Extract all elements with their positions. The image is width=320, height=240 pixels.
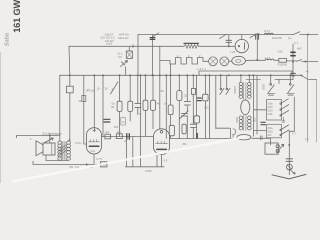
svg-text:2003: 2003 xyxy=(267,107,273,109)
svg-text:2003: 2003 xyxy=(267,131,273,133)
wire V257 switch column xyxy=(256,75,258,134)
wire V196.5 xyxy=(196,75,198,133)
text labels group xyxy=(30,29,310,173)
box B1 contact 1 xyxy=(280,103,282,105)
svg-text:Cax: Cax xyxy=(90,149,95,153)
resistor R6 xyxy=(151,100,156,110)
svg-text:410b: 410b xyxy=(267,114,273,116)
svg-text:706: 706 xyxy=(69,166,74,169)
tube V1 bottom wire xyxy=(93,154,95,165)
svg-text:100a: 100a xyxy=(267,104,273,106)
resistor R3 xyxy=(117,101,122,111)
wire V137.8 with capacitor xyxy=(137,75,139,114)
svg-text:100: 100 xyxy=(204,106,209,110)
svg-text:(1): (1) xyxy=(288,36,291,40)
wire pot to bus xyxy=(125,67,127,76)
main bus H3 xyxy=(60,74,302,76)
node dot on H1 right xyxy=(307,33,309,35)
mains lead V289.3 xyxy=(288,131,290,175)
heater chain square wave xyxy=(170,58,209,65)
svg-text:0,3 3: 0,3 3 xyxy=(264,29,270,33)
switch S1 blade on H1 xyxy=(294,32,300,35)
T2 upper primary coil xyxy=(239,82,243,98)
contact A1 circle xyxy=(270,83,272,85)
wire V209.5 xyxy=(209,75,211,138)
membrane arrow xyxy=(44,138,53,143)
svg-text:30: 30 xyxy=(105,87,108,91)
resistor R15 xyxy=(203,94,209,101)
switch arrow below plug xyxy=(290,170,295,174)
resistor R2 box on H4 xyxy=(279,58,287,62)
box B1 contact 2 xyxy=(280,109,282,111)
capacitor C6 box on V69.8 xyxy=(66,86,73,93)
T2 lower secondary coil xyxy=(248,116,252,130)
resistor R4 xyxy=(128,101,133,111)
svg-text:F 7: F 7 xyxy=(305,138,309,142)
wire V at x293 AVC line xyxy=(292,44,294,80)
svg-text:1003: 1003 xyxy=(267,111,273,113)
tube U1 cathode bar xyxy=(244,43,246,50)
node dot H1 coil junction xyxy=(258,34,260,36)
T2 bottom flat oval xyxy=(237,135,251,140)
svg-text:Saba: Saba xyxy=(5,33,11,46)
capacitor C16 tiny on V83.8 xyxy=(82,96,86,102)
svg-text:3,0 Membran: 3,0 Membran xyxy=(42,132,62,136)
T2 mid oval winding xyxy=(241,100,250,115)
capacitor C18 dark blob xyxy=(197,98,201,101)
feedthrough blob on H5 xyxy=(196,134,198,139)
switch blade S3 below bus xyxy=(111,82,119,94)
box B2 contact 1 xyxy=(280,129,282,131)
lamp contacts in P1 xyxy=(276,145,279,148)
svg-text:#1/2/3/8: #1/2/3/8 xyxy=(272,36,282,40)
connector ticks on jog wire xyxy=(260,136,262,140)
resistor R5 xyxy=(143,100,148,110)
wire V right column x307.5 xyxy=(307,34,309,142)
switch S2 blade on H4 xyxy=(297,60,302,62)
tube V2 top electrode xyxy=(160,131,163,134)
resistor R10 xyxy=(194,116,200,123)
wire H at y79.5 xyxy=(275,79,293,81)
heater chain feed xyxy=(160,59,170,61)
wire lamp2 to rectifier oval xyxy=(229,60,232,62)
dial lamp La2 xyxy=(220,57,229,66)
main bottom wire A xyxy=(33,161,108,164)
tube V2 bottom wires xyxy=(157,155,162,167)
node dot on H4 right xyxy=(304,61,306,63)
resistor R13 box DG on bottom wire xyxy=(101,162,107,167)
contact A1 blade xyxy=(268,85,274,93)
wire row6 from column xyxy=(253,130,266,132)
capacitor C15 on mains lead xyxy=(286,159,293,162)
switch contact K2 xyxy=(226,88,228,90)
trimmer C2 on H1 xyxy=(256,34,259,39)
wire V at x159.8 to tube2 xyxy=(159,46,161,129)
node dot oval left xyxy=(256,59,258,61)
svg-text:#6x: #6x xyxy=(183,142,188,146)
arrow on P1 xyxy=(277,144,284,152)
wire H5 mid horizontal xyxy=(170,138,238,140)
wire V253.4 switch column xyxy=(252,75,254,136)
transformer T1 core xyxy=(63,142,65,160)
contact A2 foot bars xyxy=(287,94,294,95)
svg-text:p~: p~ xyxy=(97,87,102,91)
wire V at x138 xyxy=(137,35,139,76)
node dots on main bus xyxy=(69,74,71,76)
junction dots group xyxy=(49,33,309,165)
wire V69.8 xyxy=(68,46,71,141)
svg-text:200a: 200a xyxy=(267,128,273,130)
wire yB lower left xyxy=(46,160,69,162)
tube U1 triode circle AK1 xyxy=(235,39,248,52)
tube U1 anode dot xyxy=(238,45,240,47)
svg-text:VCL1: VCL1 xyxy=(75,141,82,145)
boxed label 1,2 xyxy=(121,118,126,126)
svg-text:MΩ1-ΩJ: MΩ1-ΩJ xyxy=(118,36,129,40)
svg-text:0μ1: 0μ1 xyxy=(105,131,110,134)
capacitor C3 on V228.8 xyxy=(226,40,232,42)
tube V2 grid xyxy=(156,141,168,143)
svg-text:0 3 3: 0 3 3 xyxy=(265,58,271,60)
svg-text:2003: 2003 xyxy=(262,84,266,90)
tick above H2 xyxy=(132,45,134,48)
svg-text:120: 120 xyxy=(114,125,119,129)
wire stub V279 xyxy=(278,80,280,84)
svg-text:0,5: 0,5 xyxy=(118,55,122,59)
contact A1 foot bars xyxy=(267,94,274,95)
wire V132.8 xyxy=(132,137,134,167)
resistor R1 zigzag xyxy=(184,44,199,48)
wire V59.8 bus left end down xyxy=(59,75,61,141)
wire V166.3 xyxy=(165,75,167,138)
switch contact K1 xyxy=(220,88,222,90)
node dot bottom wire xyxy=(86,164,88,166)
capacitor C8 xyxy=(184,102,190,105)
tube V1 cathode xyxy=(89,145,99,147)
svg-text:R13000: R13000 xyxy=(278,62,288,66)
T2 core xyxy=(244,83,246,131)
wire A2 feed xyxy=(289,75,291,83)
svg-text:3Ω: 3Ω xyxy=(79,99,83,103)
svg-text:+1 9 1 3: +1 9 1 3 xyxy=(196,67,206,71)
box B1 contact 3 xyxy=(280,115,282,117)
T2 upper secondary coil xyxy=(248,82,252,98)
wire V170.6 chain feed xyxy=(170,64,172,139)
svg-text:12k: 12k xyxy=(184,94,189,98)
svg-text:L: L xyxy=(112,87,114,92)
lamp box P1 xyxy=(265,143,278,154)
speaker SP1 magnet box xyxy=(43,143,55,155)
wire loop V215.8 xyxy=(215,75,217,128)
capacitor C7 xyxy=(135,104,141,108)
wire magnet leg xyxy=(45,155,47,161)
node dot membrane line xyxy=(49,135,51,137)
capacitor C17 dark blob xyxy=(104,119,110,122)
switch box B2 xyxy=(267,124,282,138)
resistor R8 xyxy=(177,91,182,101)
switch box B1 xyxy=(267,100,282,121)
box B2 contact 2 xyxy=(280,134,282,136)
trimmer capacitor X on V187.3 xyxy=(181,113,187,116)
wire V220.7 contact stub xyxy=(220,75,222,88)
T2 lower primary coil xyxy=(239,116,243,130)
tube V1 grid xyxy=(88,140,99,142)
potentiometer arrow xyxy=(121,61,128,67)
capacitor C14 dark blob xyxy=(261,122,265,124)
tube V2 envelope xyxy=(153,129,169,155)
wire V38.9 to speaker xyxy=(49,136,51,144)
wire V94.3 tube1 anode feed xyxy=(93,75,95,127)
contact A2 circle xyxy=(289,83,291,85)
resistor R14 top box xyxy=(191,89,195,95)
wire V119.5 with resistor xyxy=(119,75,121,136)
node dot mains lead xyxy=(288,144,290,146)
trimmer arrow C3 xyxy=(220,34,227,38)
ground mark below B1 xyxy=(282,118,285,123)
svg-text:V 7: V 7 xyxy=(292,131,297,135)
resistor R12 on W12 xyxy=(116,134,122,139)
wire T1 secondary jog xyxy=(69,139,70,141)
wire U1 top feed xyxy=(241,35,243,40)
inductor L2 bumps on H4 xyxy=(265,59,274,60)
wire W12 tube1-tube2 coupling xyxy=(102,136,154,138)
contact A2 blade xyxy=(288,85,294,93)
wire H1 right segment xyxy=(300,33,318,35)
tube V1 envelope xyxy=(87,128,102,154)
wire V at x152.4 with capacitor xyxy=(151,35,153,76)
svg-text:2002: 2002 xyxy=(235,117,239,123)
wire V294.3 right xyxy=(289,97,294,131)
electrolytic C5 on V293 xyxy=(291,73,296,75)
wire line B below tube2 xyxy=(125,166,164,168)
svg-text:#10: #10 xyxy=(297,46,302,50)
svg-text:X 1: X 1 xyxy=(294,41,299,45)
wire row3 from column xyxy=(253,109,266,111)
svg-text:8a: 8a xyxy=(161,89,164,93)
wire V226.7 stub xyxy=(226,75,228,88)
dial lamp La1 xyxy=(209,57,218,66)
wire V83.8 to tube1 grid xyxy=(84,75,87,144)
resistor R11 on W12 xyxy=(105,134,111,139)
svg-text:L 4 3: L 4 3 xyxy=(161,159,167,163)
wire stub below bus right xyxy=(246,79,261,81)
svg-text:30 µ: 30 µ xyxy=(86,88,95,93)
tube V1 top electrode dot xyxy=(93,129,96,132)
node dot on H2 xyxy=(228,45,230,47)
svg-text:0μ1: 0μ1 xyxy=(117,131,122,134)
svg-text:L 43: L 43 xyxy=(230,50,236,54)
loop bracket xyxy=(216,128,231,139)
wire V145.4 with resistor xyxy=(144,75,146,136)
wire V205.5 with resistor xyxy=(205,75,207,138)
node dot on V293 xyxy=(292,61,294,63)
capacitor C4 blob on V293 xyxy=(291,52,295,55)
plug connector circle xyxy=(287,164,293,170)
resistor R7b xyxy=(169,125,174,136)
wire H1 top bus xyxy=(138,34,294,36)
scan edge left xyxy=(0,52,2,183)
switch blade mains on bus end xyxy=(302,76,308,79)
svg-text:49: 49 xyxy=(111,105,114,109)
svg-text:6 0k5: 6 0k5 xyxy=(145,169,152,173)
trimmer arrow over C1 xyxy=(153,33,159,37)
wire V103 xyxy=(102,75,104,136)
speaker SP1 cone xyxy=(36,141,43,156)
resistor R9 xyxy=(182,124,186,134)
inductor L1 bumps on H1 xyxy=(264,33,273,34)
wire V140.5 long xyxy=(140,75,142,167)
wire V179.3 with resistor xyxy=(178,75,180,138)
dial box rectangle xyxy=(199,71,292,75)
wire V130.2 with resistor xyxy=(129,75,131,121)
wire V at x228.8 xyxy=(228,35,230,47)
wire V126.5 xyxy=(126,139,128,166)
svg-text:4 7,5: 4 7,5 xyxy=(96,157,102,161)
wire V right edge x316.5 xyxy=(316,79,318,142)
svg-text:335: 335 xyxy=(253,118,257,123)
IF transformer T2 feed wires xyxy=(241,75,249,82)
wire V187.3 with capacitors xyxy=(186,75,188,138)
wire H4 right row xyxy=(245,59,297,62)
wire V at x257.3 antenna coil feed xyxy=(256,35,258,60)
svg-text:(mV): (mV) xyxy=(106,41,112,45)
hook squiggle xyxy=(233,129,236,137)
wire H4 right segment xyxy=(302,61,318,63)
capacitor C11 dark on W12 xyxy=(127,134,130,139)
wire mains feed right xyxy=(308,78,317,80)
resistor R1 value bar xyxy=(184,42,199,44)
svg-text:10000: 10000 xyxy=(233,86,237,94)
wire jog transformer to lamp box xyxy=(252,138,271,145)
output transformer T1 primary coil xyxy=(58,141,62,160)
wire V153 with resistor xyxy=(152,75,154,129)
svg-text:-190: -190 xyxy=(277,50,283,54)
capacitor C1 on V152.4 xyxy=(150,38,155,40)
membrane line left xyxy=(17,136,60,138)
tube V2 cathode xyxy=(157,148,167,150)
rectifier tube L43 oval xyxy=(232,56,246,65)
svg-text:161 GW: 161 GW xyxy=(12,0,22,33)
choke box Dr below H2 xyxy=(128,46,130,51)
scan crease artifact xyxy=(12,137,245,182)
wire T1 primary bottom xyxy=(59,159,61,161)
svg-text:HPF-0Ω: HPF-0Ω xyxy=(119,32,129,36)
core hatch marks xyxy=(59,145,67,156)
wire H2 second bus xyxy=(69,45,235,47)
mains cord V shape xyxy=(272,174,306,179)
wire A1 feed xyxy=(270,75,272,83)
wire V193.3 with box and capacitor xyxy=(192,75,194,138)
capacitor C9 xyxy=(190,124,196,127)
resistor R7a xyxy=(168,105,173,115)
output transformer T1 secondary coil xyxy=(67,141,71,160)
